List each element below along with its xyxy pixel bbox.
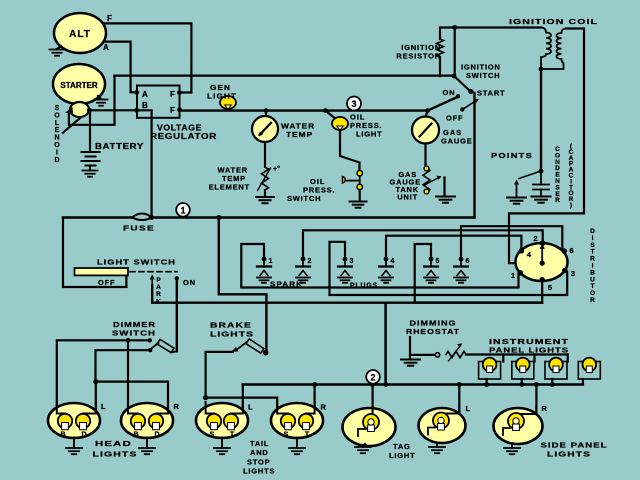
svg-text:R: R: [542, 404, 548, 413]
svg-text:SWITCH: SWITCH: [112, 329, 156, 338]
node coil bottom junction: [539, 67, 544, 72]
wire bus to brake switch: [219, 218, 267, 352]
svg-text:SPARK: SPARK: [270, 280, 303, 289]
resistor IGNITION RESISTOR: [437, 39, 444, 57]
label SOLENOID (vertical): [54, 105, 60, 164]
ground below lamp x=222: [214, 448, 230, 454]
wire lamp ground stem x=512: [511, 444, 513, 449]
svg-text:LIGHT: LIGHT: [356, 130, 383, 139]
wire rheostat left lead: [410, 354, 434, 356]
svg-text:B: B: [60, 432, 65, 439]
ground below oil press switch: [350, 202, 367, 208]
svg-text:GAUGE: GAUGE: [441, 137, 473, 146]
wire solenoid left contact down to battery link: [69, 110, 115, 125]
label WATER TEMP: [281, 122, 315, 140]
svg-text:L: L: [466, 404, 471, 413]
ground below lamp x=297: [289, 448, 305, 454]
wire gas gauge to tank unit: [424, 144, 426, 168]
node headlight D junction: [93, 379, 98, 384]
wire START riser down to bus: [473, 93, 475, 218]
node regulator terminal F top: [177, 90, 182, 95]
svg-text:2: 2: [370, 372, 375, 382]
inductor ignition coil secondary: [541, 29, 566, 70]
node bus junction oil press light: [323, 108, 328, 113]
node regulator terminal B: [134, 108, 139, 113]
svg-text:I: I: [56, 149, 58, 156]
switch PARK contact with arrowhead: [151, 279, 153, 286]
wire lamp ground stem x=297: [296, 438, 298, 449]
label VOLTAGE REGULATOR: [150, 124, 217, 142]
svg-text:D: D: [81, 432, 86, 439]
wire ignition feed line y=75.6 to ignition switch: [115, 74, 455, 76]
spark plug 3: [338, 257, 352, 283]
node rail junction x=372.6: [370, 382, 375, 387]
svg-text:IGNITION COIL: IGNITION COIL: [509, 17, 598, 26]
svg-text:TAG: TAG: [393, 442, 411, 451]
alternator ALT: [54, 13, 106, 53]
wire ON contact down to dimmer pivot: [176, 278, 178, 351]
label DIMMING RHEOSTAT: [406, 319, 460, 337]
battery symbol: [82, 152, 100, 170]
wire riser x=114.5 up to ignition feed line: [113, 76, 115, 111]
wire rail drops to tail lamps: [243, 385, 315, 414]
svg-text:POINTS: POINTS: [491, 151, 533, 160]
voltage regulator box: [137, 86, 180, 118]
svg-text:R: R: [555, 197, 560, 204]
svg-text:ALT: ALT: [69, 29, 91, 40]
wire ignition switch arm to START: [454, 76, 470, 91]
label CAPACITOR (vertical): [568, 143, 573, 209]
inductor ignition coil primary: [541, 28, 551, 70]
wire stop feed to right lamp: [206, 398, 278, 414]
wire park-tail feed line y=302.7: [152, 286, 542, 303]
wire solenoid to regulator B (y=110 link): [91, 109, 137, 111]
node rail junction x=385.8: [383, 382, 388, 387]
wire instrument feed line: [466, 353, 568, 355]
wire rheostat wiper arrow: [449, 347, 460, 361]
wire solenoid switch arm: [63, 118, 80, 133]
svg-text:STARTER: STARTER: [60, 81, 97, 90]
switch OIL PRESS (contacts): [343, 171, 363, 190]
svg-text:3: 3: [571, 269, 575, 278]
svg-text:L: L: [248, 403, 253, 412]
instrument panel lamp 2: [512, 358, 534, 379]
ground below water temp element: [256, 197, 274, 203]
svg-text:AND: AND: [250, 448, 269, 457]
indicator lamp GEN LIGHT: [220, 96, 236, 109]
svg-text:BRAKE: BRAKE: [210, 321, 252, 330]
svg-text:5: 5: [436, 258, 440, 265]
ground below battery: [83, 171, 98, 177]
label IGNITION RESISTOR: [396, 43, 441, 61]
svg-text:3: 3: [350, 258, 354, 265]
instrument panel lamp 4: [578, 358, 600, 379]
switch brake pedal blade: [237, 342, 248, 350]
wire points moving contact with arrowhead: [516, 184, 518, 197]
node brake switch right contact: [263, 350, 269, 356]
wire resistor bottom to feed line: [439, 57, 441, 76]
wire plug 6 to distributor terminal 6: [461, 226, 562, 256]
svg-text:1: 1: [511, 271, 515, 280]
node distributor terminal 3: [562, 268, 568, 274]
node circled 1: [176, 203, 190, 217]
svg-text:S: S: [55, 105, 60, 112]
lamp tail-stop light L: [196, 402, 248, 439]
node distributor terminal 2: [540, 240, 546, 246]
svg-text:D: D: [54, 157, 59, 164]
wire ignition switch pivot riser: [454, 28, 456, 77]
wire alternator F to regulator F: [102, 23, 191, 92]
node START contact: [468, 89, 473, 94]
label SPARK PLUGS: [270, 280, 378, 290]
svg-text:L: L: [55, 120, 60, 127]
wire water temp gauge to element: [264, 142, 266, 167]
wire dimmer high contact line: [57, 340, 150, 413]
svg-text:N: N: [54, 135, 59, 142]
node stop feed junction: [203, 395, 208, 400]
ground at alternator: [50, 50, 65, 56]
svg-text:S: S: [284, 432, 289, 439]
wire tag lamp drop: [372, 385, 374, 417]
svg-text:1: 1: [180, 205, 185, 215]
node circled 2: [366, 370, 380, 384]
node headlight B junction: [126, 338, 131, 343]
label INSTRUMENT PANEL LIGHTS: [489, 337, 569, 355]
spark plug 4: [379, 257, 393, 283]
wire battery stem: [89, 112, 91, 151]
svg-text:E: E: [55, 127, 60, 134]
label OIL PRESS. SWITCH: [287, 177, 335, 203]
svg-text:A: A: [156, 284, 161, 291]
svg-text:O: O: [54, 112, 60, 119]
svg-text:LIGHT: LIGHT: [389, 451, 416, 460]
svg-text:S: S: [210, 432, 215, 439]
label IGNITION SWITCH: [461, 63, 501, 81]
wire bus to oil press light: [326, 111, 335, 118]
wire light switch feed (left rail): [63, 218, 126, 288]
switch points arm: [519, 171, 541, 179]
svg-text:R: R: [156, 291, 161, 298]
wire bulb boxes to rail: [487, 379, 583, 385]
wire plug 4 to distributor terminal 4: [386, 236, 521, 257]
node ON contact: [456, 94, 460, 98]
wire regulator B through box to fuse riser: [137, 110, 152, 217]
svg-text:F: F: [170, 106, 175, 115]
lamp side panel light R: [494, 407, 543, 444]
svg-text:BATTERY: BATTERY: [95, 142, 144, 151]
wire oil switch to ground: [359, 190, 361, 201]
wire main fuse bus y=217.5: [63, 216, 133, 219]
svg-text:6: 6: [569, 246, 573, 255]
svg-text:RHEOSTAT: RHEOSTAT: [406, 327, 460, 336]
node bus junction water temp: [264, 108, 269, 113]
svg-text:TAIL: TAIL: [250, 439, 269, 448]
svg-text:B: B: [142, 101, 148, 110]
svg-text:PANEL LIGHTS: PANEL LIGHTS: [489, 346, 569, 355]
wire top line resistor to coil: [440, 28, 541, 40]
svg-text:R: R: [174, 402, 180, 411]
ground below lamp x=74: [66, 448, 82, 454]
node rail junction x=552.3: [550, 382, 555, 387]
svg-text:1: 1: [269, 258, 273, 265]
node distributor terminal 1: [518, 270, 524, 276]
node points junction: [539, 169, 544, 174]
svg-text:LIGHTS: LIGHTS: [243, 467, 275, 476]
svg-text:SIDE PANEL: SIDE PANEL: [541, 441, 608, 450]
svg-text:OFF: OFF: [98, 278, 115, 287]
node rail junction x=521.8: [519, 382, 524, 387]
solenoid: [67, 102, 93, 117]
svg-text:T: T: [305, 432, 310, 439]
node distributor terminal 6: [561, 248, 567, 254]
instrument panel lamp 1: [479, 358, 501, 379]
wire headlight D-feeds: [96, 382, 168, 414]
svg-text:O: O: [54, 142, 60, 149]
instrument panel lamp 3: [545, 358, 567, 379]
wire ALT ground lead: [57, 46, 61, 49]
wire dimmer low contact line: [96, 350, 151, 381]
spark plug 5: [424, 257, 438, 283]
wire water temp gauge drop: [265, 111, 267, 117]
wire tag lamp ground link: [363, 444, 365, 446]
indicator lamp OIL PRESS LIGHT: [332, 117, 348, 130]
ground below lamp x=512: [504, 448, 520, 454]
wire lamp ground stem x=363: [362, 446, 364, 448]
svg-text:5: 5: [548, 283, 552, 292]
distributor body: [516, 243, 568, 281]
node rail junction x=314.6: [312, 382, 317, 387]
label HEAD LIGHTS: [93, 439, 138, 459]
spark plug 6: [454, 257, 468, 283]
wire rheostat ground lead: [409, 337, 411, 359]
wire rear lighting rail y=384.5: [243, 383, 583, 385]
lamp head light R: [121, 402, 173, 439]
wire plug 1 to distributor terminal 1: [241, 244, 518, 288]
svg-text:RESISTOR: RESISTOR: [396, 52, 441, 61]
label SIDE PANEL LIGHTS: [541, 441, 608, 459]
node rail junction x=459.3: [457, 382, 462, 387]
svg-text:T: T: [230, 432, 235, 439]
wire alternator A to regulator A: [103, 42, 136, 93]
node circled 3: [347, 97, 361, 111]
svg-text:+°: +°: [273, 165, 280, 173]
wire bus to gas gauge: [426, 111, 428, 117]
label GAS GAUGE: [441, 128, 473, 146]
spark plug 1: [257, 257, 271, 283]
switch dimmer blade: [151, 343, 159, 349]
lamp TAG light: [343, 407, 396, 446]
ground below lamp x=363: [355, 447, 371, 453]
resistor dimming rheostat: [446, 351, 466, 357]
svg-text:4: 4: [391, 258, 395, 265]
svg-text:A: A: [142, 90, 148, 99]
svg-text:LIGHTS: LIGHTS: [547, 450, 591, 459]
svg-text:HEAD: HEAD: [95, 439, 132, 448]
label DIMMER SWITCH: [112, 320, 156, 338]
ground below condenser: [532, 197, 551, 203]
svg-text:ON: ON: [443, 88, 456, 97]
wire headlight L B-feed: [127, 340, 129, 413]
ground below lamp x=147: [139, 448, 155, 454]
label CONDENSER (vertical): [555, 146, 560, 204]
capacitor condenser: [533, 171, 549, 196]
wire fuse bus continues to START riser: [150, 216, 475, 219]
svg-text:REGULATOR: REGULATOR: [150, 132, 217, 141]
label TAIL AND STOP LIGHTS: [243, 439, 275, 476]
wire tank unit wiper arrow: [424, 177, 441, 186]
light switch knob bar: [75, 268, 129, 275]
wire lamp ground stem x=222: [221, 438, 223, 449]
wire tail feed drop x=385.6: [384, 303, 387, 385]
svg-text:2: 2: [533, 234, 537, 243]
svg-text:L: L: [101, 402, 106, 411]
wire element arrow (thermistor): [258, 168, 271, 191]
svg-text:B: B: [133, 432, 138, 439]
lamp tail-stop light R: [271, 402, 323, 439]
node brake switch left contact: [232, 347, 239, 352]
wire light switch dashed link: [130, 271, 177, 273]
svg-text:TEMP: TEMP: [286, 130, 313, 139]
resistor water temp element: [262, 167, 269, 190]
node OFF contact: [460, 107, 464, 111]
node ignition switch pivot: [452, 74, 457, 79]
node dimmer high contact: [148, 338, 152, 342]
svg-text:F: F: [170, 90, 175, 99]
resistor gas gauge tank unit: [423, 168, 430, 192]
svg-text:START: START: [477, 89, 505, 98]
wire side panel lamp drops: [459, 385, 536, 415]
label distributor terminal numbers: [511, 234, 575, 292]
label PARK (vertical): [156, 277, 161, 305]
svg-text:LIGHT SWITCH: LIGHT SWITCH: [97, 258, 176, 267]
wire brake output to stop bulbs: [206, 352, 233, 398]
wire plug 3 to distributor terminal 3: [330, 242, 568, 295]
node brake feed junction: [216, 215, 221, 220]
wire starter ground lead: [98, 96, 101, 99]
svg-text:OFF: OFF: [446, 114, 463, 123]
svg-text:ELEMENT: ELEMENT: [209, 183, 250, 192]
svg-text:2: 2: [308, 258, 312, 265]
ground below points: [507, 198, 526, 204]
svg-text:F: F: [107, 14, 112, 23]
ground at starter: [95, 100, 108, 106]
label WATER TEMP ELEMENT: [209, 166, 250, 192]
svg-text:SWITCH: SWITCH: [287, 194, 321, 203]
node ON contact (light switch): [175, 276, 179, 280]
fuse: [132, 214, 152, 221]
label OIL PRESS. LIGHT: [350, 113, 383, 139]
gauge GAS GAUGE: [412, 117, 439, 144]
svg-text:): ): [570, 202, 572, 209]
svg-text:LIGHTS: LIGHTS: [93, 450, 138, 459]
svg-text:STOP: STOP: [247, 458, 270, 467]
node rheostat pivot contact: [435, 353, 439, 357]
starter motor: [53, 64, 105, 104]
node regulator terminal F bottom: [177, 107, 182, 112]
node fuse riser junction: [149, 215, 154, 220]
label DISTRIBUTOR (vertical): [590, 228, 595, 304]
wire main accessory bus y=110.6: [180, 97, 459, 111]
wire distributor rotor with arrowhead: [541, 248, 543, 263]
node bus junction gas gauge: [425, 108, 430, 113]
svg-text:FUSE: FUSE: [123, 224, 155, 233]
svg-text:P: P: [156, 277, 161, 284]
wire lamp ground stem x=74: [73, 438, 75, 449]
ground below tank unit: [436, 197, 455, 203]
wire lamp ground stem x=437: [436, 443, 438, 448]
svg-text:A: A: [103, 43, 109, 52]
svg-text:PLUGS: PLUGS: [350, 281, 378, 290]
wire oil press light to switch: [340, 130, 360, 170]
node dimmer low contact: [148, 348, 152, 352]
label GEN LIGHT: [207, 83, 237, 101]
svg-text:LIGHTS: LIGHTS: [210, 330, 254, 339]
node distributor center: [540, 261, 545, 266]
node junction top wire: [452, 25, 457, 30]
ground below lamp x=437: [429, 447, 445, 453]
svg-text:D: D: [154, 432, 159, 439]
label GAS GAUGE TANK UNIT: [389, 170, 421, 202]
lamp side panel light L: [419, 407, 466, 443]
wire feed taps to bulb boxes: [503, 355, 567, 362]
spark plug 2: [296, 257, 310, 283]
node distributor terminal 4: [519, 248, 525, 254]
wire lamp ground stem x=147: [146, 438, 148, 449]
svg-text:3: 3: [351, 99, 356, 109]
wire coil secondary top to distributor center: [509, 29, 584, 264]
svg-text:LIGHT: LIGHT: [207, 92, 237, 101]
svg-text:R: R: [321, 403, 327, 412]
svg-text:6: 6: [466, 258, 470, 265]
node rail junction x=536.4: [534, 382, 539, 387]
svg-text:SWITCH: SWITCH: [466, 71, 500, 80]
gauge WATER TEMP: [252, 116, 278, 142]
wire tank unit to ground: [443, 178, 445, 197]
svg-text:R: R: [590, 297, 595, 304]
lamp head light L: [48, 402, 100, 439]
label BRAKE LIGHTS: [210, 321, 254, 339]
node regulator terminal A: [134, 90, 139, 95]
node rail junction x=486.6: [484, 382, 489, 387]
label TAG LIGHT: [389, 442, 416, 460]
svg-text:UNIT: UNIT: [397, 193, 418, 202]
wire OFF arm with arrowhead: [462, 101, 475, 110]
wire plug 2 to distributor terminal 2: [303, 230, 543, 257]
wire plug 5 to distributor terminal 5: [415, 244, 543, 303]
svg-text:ON: ON: [183, 278, 196, 287]
node distributor terminal 5: [539, 277, 545, 283]
ground at rheostat: [401, 360, 420, 366]
wire coil to points: [540, 69, 542, 171]
wire element to ground: [264, 190, 266, 197]
